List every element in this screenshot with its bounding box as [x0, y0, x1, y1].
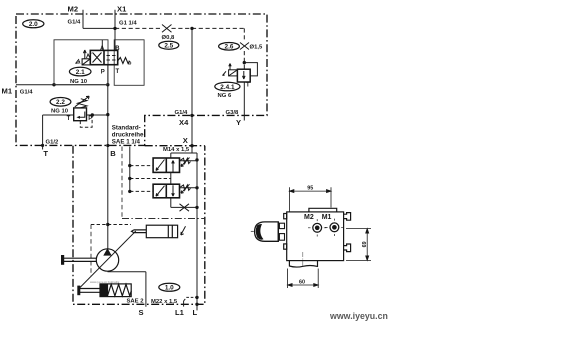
svg-text:M2: M2 — [68, 5, 79, 14]
svg-text:P: P — [101, 70, 105, 76]
svg-text:2.6: 2.6 — [225, 44, 234, 51]
svg-text:b: b — [128, 61, 131, 67]
svg-text:L1: L1 — [175, 308, 185, 317]
svg-text:A: A — [100, 46, 105, 52]
svg-text:X1: X1 — [117, 5, 127, 14]
svg-text:M2: M2 — [304, 214, 314, 221]
svg-text:SAE 2: SAE 2 — [127, 299, 145, 305]
svg-text:2.4.1: 2.4.1 — [220, 84, 235, 91]
svg-text:X: X — [183, 136, 188, 145]
svg-text:1.0: 1.0 — [165, 285, 174, 292]
svg-text:M14 x 1,5: M14 x 1,5 — [163, 147, 190, 153]
svg-text:X4: X4 — [179, 118, 189, 127]
svg-text:a: a — [78, 60, 81, 66]
svg-text:druckreihe: druckreihe — [112, 132, 144, 139]
svg-text:69: 69 — [362, 241, 368, 247]
svg-text:G1/4: G1/4 — [68, 20, 81, 26]
svg-text:T: T — [246, 83, 250, 89]
svg-text:T: T — [116, 69, 120, 75]
svg-text:2.5: 2.5 — [164, 43, 173, 50]
svg-text:NG 6: NG 6 — [218, 93, 232, 99]
svg-text:M1: M1 — [322, 214, 332, 221]
svg-text:2.0: 2.0 — [29, 21, 38, 28]
svg-text:60: 60 — [299, 280, 305, 286]
svg-text:L: L — [193, 308, 198, 317]
svg-text:Ø0,8: Ø0,8 — [162, 35, 175, 41]
svg-text:NG 10: NG 10 — [51, 109, 69, 115]
svg-text:2.1: 2.1 — [76, 69, 85, 76]
svg-text:T: T — [67, 116, 71, 122]
svg-text:M22 x 1,5: M22 x 1,5 — [151, 299, 178, 305]
svg-text:T: T — [43, 149, 48, 158]
svg-text:SAE 1 1/4: SAE 1 1/4 — [112, 139, 141, 146]
svg-text:G1/2: G1/2 — [46, 139, 59, 145]
svg-text:Y: Y — [236, 118, 241, 127]
svg-text:Standard-: Standard- — [112, 125, 141, 132]
svg-text:95: 95 — [307, 186, 313, 192]
svg-text:G3/8: G3/8 — [226, 110, 239, 116]
svg-text:M1: M1 — [2, 87, 13, 96]
svg-text:G1/4: G1/4 — [175, 110, 188, 116]
svg-text:B: B — [115, 46, 120, 52]
svg-text:P: P — [88, 116, 92, 122]
svg-text:Ø1,5: Ø1,5 — [250, 45, 263, 51]
svg-text:NG 10: NG 10 — [70, 79, 88, 85]
svg-text:2.2: 2.2 — [56, 99, 65, 106]
svg-text:S: S — [139, 308, 144, 317]
svg-text:G1/4: G1/4 — [20, 90, 33, 96]
svg-text:G1 1/4: G1 1/4 — [119, 21, 137, 27]
svg-text:www.iyeyu.cn: www.iyeyu.cn — [329, 311, 388, 321]
svg-text:B: B — [110, 149, 116, 158]
svg-text:www.iyeyu.cn hydraulic: www.iyeyu.cn hydraulic — [90, 280, 120, 284]
